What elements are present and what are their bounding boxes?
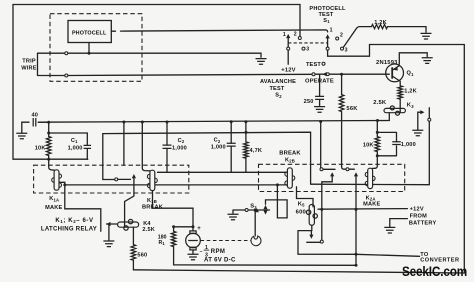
svg-text:2N1593: 2N1593 [376,60,398,66]
svg-text:2.5K: 2.5K [373,100,387,106]
svg-text:4,7K: 4,7K [250,148,263,154]
svg-text:K2B: K2B [285,157,295,163]
svg-text:1,000: 1,000 [172,145,187,151]
svg-text:OPERATE: OPERATE [305,78,334,84]
svg-text:RPM: RPM [211,249,226,255]
svg-text:AVALANCHE: AVALANCHE [260,79,296,85]
svg-text:FROM: FROM [410,214,428,220]
svg-text:+12V: +12V [410,207,424,213]
svg-text:S1: S1 [323,18,330,24]
svg-text:+: + [197,226,201,232]
svg-text:56K: 56K [346,106,358,112]
svg-text:1,000: 1,000 [401,142,416,148]
svg-text:−: − [200,249,203,255]
svg-text:10K: 10K [35,145,46,151]
svg-text:K5: K5 [298,201,305,207]
svg-text:1,2K: 1,2K [374,20,387,26]
svg-text:1,000: 1,000 [68,145,83,151]
svg-text:TRIP: TRIP [22,59,36,65]
svg-text:MAKE: MAKE [45,205,62,211]
svg-text:BREAK: BREAK [279,151,301,157]
svg-text:600: 600 [296,209,306,215]
svg-text:BATTERY: BATTERY [409,221,437,227]
svg-text:BREAK: BREAK [142,204,163,210]
svg-text:10K: 10K [363,142,374,148]
svg-text:40: 40 [31,113,38,119]
svg-text:560: 560 [137,253,147,259]
svg-text:PHOTOCELL: PHOTOCELL [72,30,107,36]
svg-text:K1; K2– 6-V: K1; K2– 6-V [55,218,93,224]
svg-text:Q1: Q1 [407,71,415,77]
svg-text:1: 1 [330,28,333,34]
svg-text:WIRE: WIRE [21,65,36,71]
svg-text:1,000: 1,000 [211,145,226,151]
svg-text:K3: K3 [407,103,414,109]
svg-text:2.5K: 2.5K [142,227,155,233]
svg-text:1,2K: 1,2K [404,89,417,95]
svg-text:AT 6V D-C: AT 6V D-C [204,257,236,263]
svg-text:R1: R1 [159,240,166,246]
svg-text:SeekIC.com: SeekIC.com [402,264,467,280]
svg-text:S2: S2 [275,93,282,99]
svg-text:TEST: TEST [269,86,284,92]
svg-text:2: 2 [340,33,343,39]
svg-text:K1B: K1B [147,198,157,204]
svg-text:3: 3 [306,47,309,53]
svg-text:PHOTOCELL: PHOTOCELL [309,6,346,12]
svg-text:TEST: TEST [306,62,321,68]
svg-text:C2: C2 [214,138,221,144]
svg-text:LATCHING RELAY: LATCHING RELAY [41,227,97,233]
svg-text:1: 1 [283,32,286,38]
svg-text:3: 3 [345,47,348,53]
svg-text:K1A: K1A [49,196,59,202]
svg-text:250: 250 [304,99,314,105]
svg-text:C1: C1 [71,138,78,144]
svg-text:CONVERTER: CONVERTER [420,257,459,263]
svg-text:S3: S3 [250,204,257,210]
svg-text:C2: C2 [178,138,185,144]
svg-text:2: 2 [294,32,297,38]
svg-text:MAKE: MAKE [363,201,380,207]
svg-text:+12V: +12V [281,67,296,73]
